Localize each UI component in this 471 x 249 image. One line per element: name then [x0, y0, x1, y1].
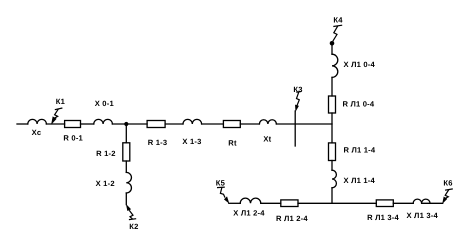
svg-text:R Л1 3-4: R Л1 3-4	[367, 213, 399, 222]
svg-text:R 1-3: R 1-3	[148, 138, 168, 147]
resistor RL1 3-4	[376, 200, 393, 207]
svg-text:К3: К3	[293, 85, 302, 94]
wire RL1 0-4 to RL1 1-4	[331, 113, 333, 143]
wire X1-2 to K2	[125, 193, 127, 205]
fault K1	[52, 108, 63, 124]
svg-text:Xc: Xc	[32, 128, 42, 137]
resistor Rt	[223, 121, 240, 128]
svg-text:R 1-2: R 1-2	[96, 149, 116, 158]
inductor XL1 3-4	[413, 199, 430, 203]
svg-text:R Л1 2-4: R Л1 2-4	[276, 214, 308, 223]
wire Xt to right branch	[276, 123, 332, 125]
wire bottom K5 lead	[229, 202, 240, 204]
wire Xc to R0-1	[46, 123, 64, 125]
wire XL1 0-4 to RL1 0-4	[331, 77, 333, 96]
resistor RL1 0-4	[329, 96, 336, 113]
inductor XL1 1-4	[332, 170, 336, 188]
inductor Xc	[28, 119, 47, 124]
inductor Xt	[259, 120, 276, 124]
wire main left lead	[17, 123, 28, 125]
resistor R0-1	[65, 121, 81, 128]
wire RL1 2-4 to RL1 3-4	[298, 202, 376, 204]
wire R1-2 to X1-2	[125, 161, 127, 172]
node junction main/left branch	[124, 122, 128, 126]
wire RL1 3-4 to XL1 3-4	[393, 202, 413, 204]
svg-text:Х Л1 0-4: Х Л1 0-4	[344, 60, 376, 69]
svg-text:R Л1 0-4: R Л1 0-4	[343, 100, 375, 109]
wire XL1 2-4 to RL1 2-4	[261, 202, 281, 204]
inductor X0-1	[94, 119, 113, 124]
wire RL1 1-4 to XL1 1-4	[331, 161, 333, 171]
wire XL1 3-4 to K6	[422, 202, 443, 204]
resistor RL1 2-4	[281, 200, 298, 207]
svg-text:Х Л1 2-4: Х Л1 2-4	[233, 209, 265, 218]
fault K2	[126, 205, 136, 220]
wire X1-3 to Rt	[202, 123, 224, 125]
svg-text:X 1-2: X 1-2	[96, 179, 115, 188]
svg-text:К4: К4	[333, 15, 343, 24]
svg-text:Х Л1 1-4: Х Л1 1-4	[344, 176, 376, 185]
svg-text:R Л1 1-4: R Л1 1-4	[344, 145, 376, 154]
wire R0-1 to X0-1	[81, 123, 94, 125]
wire right branch top lead	[331, 46, 333, 55]
resistor RL1 1-4	[329, 143, 336, 161]
fault K6	[443, 189, 453, 203]
wire Rt to Xt	[240, 123, 259, 125]
svg-text:R 0-1: R 0-1	[63, 134, 83, 143]
inductor X1-2	[126, 172, 131, 193]
svg-text:К5: К5	[216, 179, 226, 188]
bus bar node K3	[294, 111, 296, 146]
wire X0-1 to R1-3	[112, 123, 147, 125]
svg-text:К1: К1	[56, 97, 66, 106]
svg-text:Rt: Rt	[228, 138, 237, 147]
svg-text:Xt: Xt	[263, 135, 271, 144]
svg-text:X 1-3: X 1-3	[182, 137, 201, 146]
inductor X1-3	[183, 119, 202, 124]
svg-text:К2: К2	[129, 222, 138, 231]
wire R1-3 to X1-3	[165, 123, 183, 125]
fault K3	[295, 91, 301, 111]
wire left branch upper	[125, 124, 127, 143]
wire XL1 1-4 to bottom bus	[331, 188, 333, 204]
fault K4	[330, 25, 343, 45]
svg-text:X 0-1: X 0-1	[95, 99, 115, 108]
svg-text:Х Л1 3-4: Х Л1 3-4	[406, 211, 438, 220]
inductor XL1 2-4	[240, 198, 261, 203]
svg-text:К6: К6	[443, 179, 452, 188]
fault K5	[217, 187, 229, 203]
resistor R1-3	[147, 121, 165, 128]
inductor XL1 0-4	[332, 54, 338, 77]
resistor R1-2	[123, 143, 130, 161]
